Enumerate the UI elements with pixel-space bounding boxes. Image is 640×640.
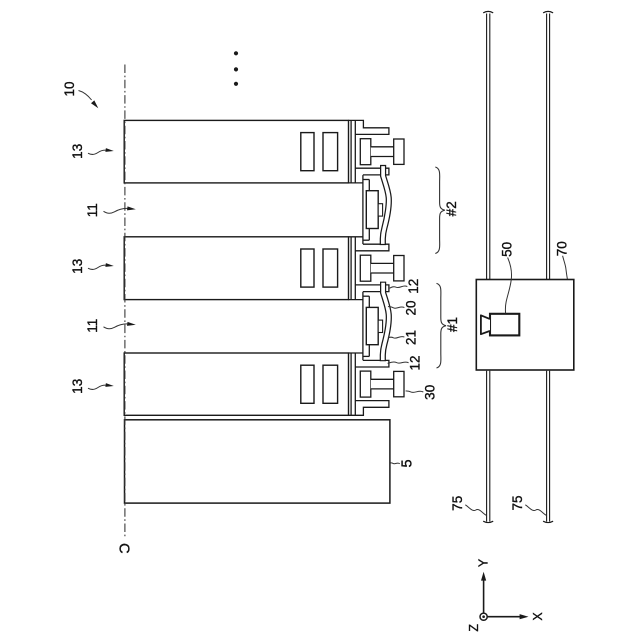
damper body 21 (#1) bbox=[366, 307, 378, 344]
svg-text:13: 13 bbox=[70, 259, 85, 274]
leader for 75 (right) bbox=[525, 505, 546, 516]
svg-text:11: 11 bbox=[85, 203, 100, 217]
car 13b end wall inner line bbox=[350, 237, 352, 300]
svg-text:50: 50 bbox=[500, 242, 515, 257]
svg-text:12: 12 bbox=[408, 355, 423, 370]
camera 50 body bbox=[490, 314, 519, 336]
damper body side tab (#1) bbox=[378, 320, 382, 332]
camera 50 lens bbox=[481, 315, 490, 334]
brace for group #1 bbox=[437, 283, 447, 368]
svg-text:11: 11 bbox=[85, 319, 100, 333]
svg-text:#2: #2 bbox=[444, 201, 459, 216]
svg-text:Z: Z bbox=[467, 624, 481, 632]
svg-text:#1: #1 bbox=[445, 317, 460, 332]
car 13c end frame vertical bbox=[354, 353, 356, 415]
car body 13c bbox=[124, 353, 348, 415]
car 13a roof-side mount bracket bbox=[349, 120, 389, 134]
coupler I-beam left flange (car 13b) bbox=[360, 255, 371, 281]
end structure box 5 bbox=[125, 420, 390, 503]
coupler I-beam right flange (car 13b) bbox=[394, 256, 404, 281]
svg-text:75: 75 bbox=[510, 495, 525, 510]
car 13c floor-side mount bracket bbox=[349, 401, 389, 416]
car 13c end wall inner line bbox=[350, 353, 352, 415]
brace for group #2 bbox=[435, 167, 445, 254]
svg-text:Y: Y bbox=[476, 558, 490, 567]
svg-text:13: 13 bbox=[70, 379, 85, 394]
coupler I-beam left flange (car 13c) bbox=[360, 371, 371, 397]
damper body 21 (#2) bbox=[366, 191, 378, 229]
svg-text:C: C bbox=[116, 543, 132, 553]
svg-text:12: 12 bbox=[406, 279, 421, 294]
centerline C (dash-dot) bbox=[124, 65, 126, 539]
rail 75 (left) bbox=[486, 14, 488, 280]
svg-text:21: 21 bbox=[403, 330, 418, 345]
equipment window 1 (car 13c) bbox=[301, 365, 314, 403]
curved link arm 20 (#2) bbox=[383, 165, 389, 245]
equipment window 2 (car 13a) bbox=[323, 133, 338, 171]
rail 75 (right) bbox=[546, 14, 548, 280]
continuation dots bbox=[234, 51, 238, 55]
car 13a end wall inner line bbox=[350, 120, 352, 182]
car 13b end frame vertical bbox=[354, 237, 356, 300]
damper rod guide strip (#2) bbox=[362, 175, 364, 244]
car 13a floor-side mount bracket bbox=[349, 168, 389, 183]
leader for 50 bbox=[505, 258, 511, 314]
leader for 70 bbox=[563, 256, 568, 279]
car 13a end frame vertical bbox=[354, 120, 356, 182]
coupler I-beam right flange (car 13c) bbox=[394, 371, 404, 396]
svg-text:5: 5 bbox=[400, 459, 416, 467]
svg-text:30: 30 bbox=[423, 385, 438, 400]
coupler I-beam right flange (car 13a) bbox=[394, 139, 404, 164]
curved link arm 20 (#1) bbox=[383, 282, 389, 362]
svg-text:13: 13 bbox=[70, 144, 85, 159]
coupler I-beam web (car 13b) bbox=[371, 263, 394, 273]
damper rod guide strip (#1) bbox=[362, 292, 364, 360]
coordinate axes bbox=[483, 580, 485, 614]
equipment window 2 (car 13b) bbox=[323, 249, 338, 287]
svg-text:75: 75 bbox=[450, 496, 465, 511]
svg-text:10: 10 bbox=[62, 81, 77, 96]
car 13b roof-side mount bracket bbox=[349, 237, 389, 251]
damper body side tab (#2) bbox=[378, 204, 382, 216]
leader for 75 (left) bbox=[465, 505, 486, 516]
svg-text:X: X bbox=[531, 612, 545, 621]
equipment window 1 (car 13a) bbox=[301, 133, 314, 171]
car 13c roof-side mount bracket bbox=[349, 353, 389, 367]
car 13b floor-side mount bracket bbox=[349, 285, 389, 300]
equipment window 1 (car 13b) bbox=[301, 249, 314, 287]
coupler I-beam web (car 13c) bbox=[371, 379, 394, 389]
car body 13a bbox=[124, 120, 348, 182]
svg-text:70: 70 bbox=[555, 241, 570, 256]
coupler I-beam web (car 13a) bbox=[371, 147, 394, 157]
svg-text:20: 20 bbox=[403, 300, 418, 315]
measuring device box 70 bbox=[476, 280, 574, 371]
car body 13b bbox=[124, 237, 348, 300]
coupler I-beam left flange (car 13a) bbox=[360, 139, 371, 165]
equipment window 2 (car 13c) bbox=[323, 365, 338, 403]
